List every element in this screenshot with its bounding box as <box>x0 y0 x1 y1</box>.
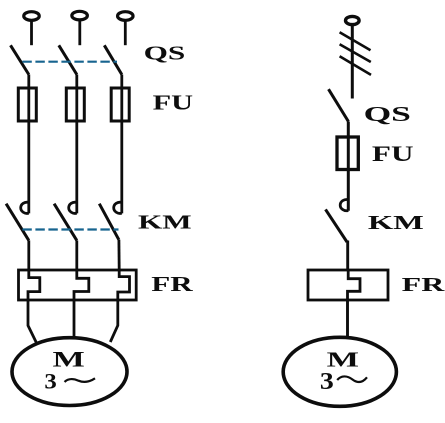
svg-text:M: M <box>327 347 359 371</box>
right supply wire <box>351 25 354 99</box>
thermal relay FR box <box>19 270 137 300</box>
svg-text:3: 3 <box>44 369 56 394</box>
wire phase3 KM to FR <box>118 240 121 270</box>
contactor KM pole1 blade <box>6 204 29 241</box>
contactor KM pole1 fixed contact arc <box>21 202 29 213</box>
wire phase3 QS to KM <box>120 75 123 214</box>
terminal L1 <box>24 12 40 21</box>
terminal L2 <box>72 11 88 20</box>
svg-text:FR: FR <box>151 272 193 296</box>
wire L1 stub <box>30 21 33 45</box>
switch QS (single-line) blade <box>329 89 349 121</box>
tilde (right motor) <box>337 376 367 382</box>
three-conductor slash 2 <box>340 44 371 62</box>
wire L3 stub <box>124 21 127 45</box>
wire KM to FR (right) <box>346 242 350 270</box>
svg-text:3: 3 <box>320 369 334 395</box>
three-conductor slash 1 <box>340 32 371 50</box>
FR heater element phase2 <box>74 270 89 300</box>
wire FR to motor (right) <box>346 300 349 339</box>
svg-text:FU: FU <box>372 141 414 166</box>
FR heater element phase3 <box>118 270 130 300</box>
three-conductor slash 3 <box>340 56 371 75</box>
FR heater element (right) <box>348 270 361 300</box>
contactor KM pole3 blade <box>99 204 119 240</box>
KM gang link (dashed) <box>22 228 118 230</box>
svg-text:KM: KM <box>138 211 192 233</box>
svg-text:QS: QS <box>364 102 411 126</box>
contactor KM pole2 fixed contact arc <box>69 202 77 213</box>
wire phase1 KM to FR <box>27 240 30 270</box>
wire phase3 FR to motor <box>110 300 118 342</box>
contactor KM (single-line) blade <box>326 209 348 242</box>
contactor KM pole3 fixed contact arc <box>114 202 122 213</box>
tilde (left motor) <box>65 378 96 382</box>
thermal relay FR box (right) <box>308 270 388 300</box>
wire phase2 QS to KM <box>75 75 78 214</box>
wire QS to fuse <box>347 122 350 211</box>
svg-text:FR: FR <box>402 274 445 296</box>
contactor KM (single-line) fixed contact arc <box>340 200 348 211</box>
right diagram terminal <box>346 16 360 24</box>
wire phase1 FR to motor <box>28 300 36 343</box>
wire phase2 FR to motor <box>73 300 76 339</box>
fuse FU 1 <box>18 88 36 121</box>
FR heater element phase1 <box>28 270 40 300</box>
contactor KM pole2 blade <box>54 204 77 241</box>
svg-text:M: M <box>53 346 85 371</box>
wire phase2 KM to FR <box>75 240 78 270</box>
wire phase1 QS to KM <box>27 75 30 214</box>
svg-text:KM: KM <box>368 212 424 234</box>
switch QS pole 1 blade <box>11 45 29 74</box>
switch QS pole 2 blade <box>59 45 77 74</box>
switch QS pole 3 blade <box>104 45 122 74</box>
fuse FU (single-line) <box>337 137 358 170</box>
motor M1 circle <box>12 338 127 406</box>
terminal L3 <box>118 12 134 21</box>
fuse FU 2 <box>66 88 84 121</box>
QS gang link (dashed) <box>22 61 117 63</box>
fuse FU 3 <box>111 88 129 121</box>
wire L2 stub <box>78 21 81 46</box>
svg-text:FU: FU <box>153 90 193 114</box>
svg-text:QS: QS <box>144 42 186 64</box>
motor M2 circle <box>283 337 396 406</box>
